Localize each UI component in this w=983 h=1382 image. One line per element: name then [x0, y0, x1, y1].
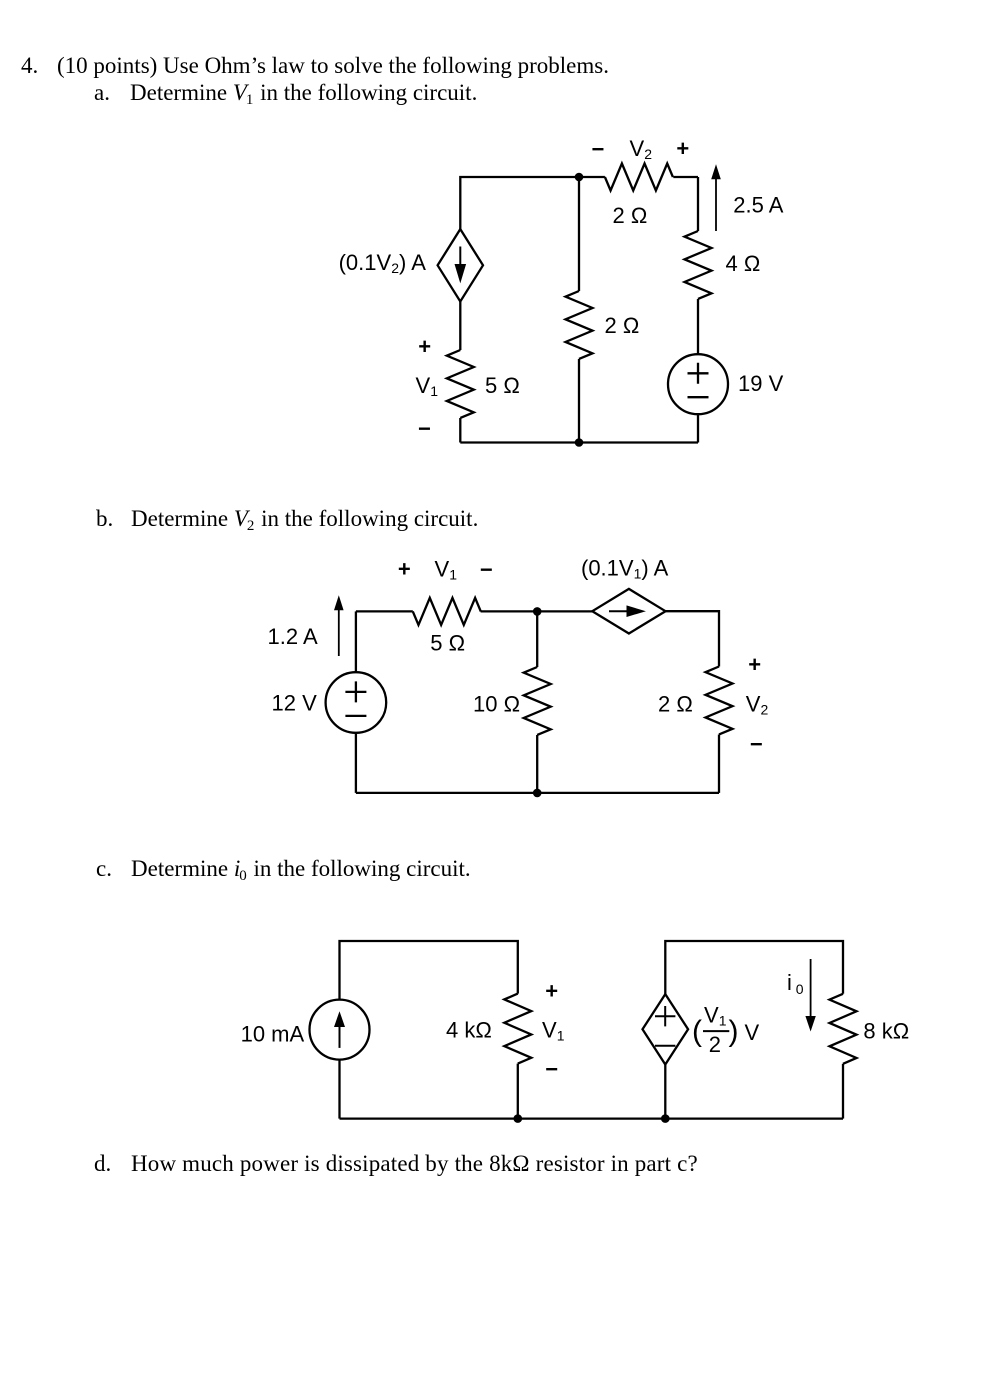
wire 2ohm to bottom [718, 735, 720, 793]
arrowhead 2.5A [711, 164, 721, 179]
svg-text:−: − [750, 732, 763, 757]
resistor 5ohm [447, 350, 474, 418]
svg-text:+: + [748, 652, 761, 677]
arrowhead 1.2A [334, 595, 344, 610]
wire 4kohm to bottom [517, 1064, 519, 1119]
svg-text:2 Ω: 2 Ω [658, 691, 693, 716]
node bottom b [533, 789, 542, 798]
arrow inside diamond [459, 247, 461, 271]
wire 8kohm to bottom [842, 1064, 844, 1119]
node right bottom [661, 1114, 670, 1123]
svg-text:(: ( [692, 1015, 702, 1048]
part d prompt [94, 1151, 111, 1177]
resistor 4ohm [685, 231, 712, 299]
resistor 5ohm horizontal [413, 598, 481, 625]
svg-text:10 mA: 10 mA [241, 1022, 305, 1047]
svg-text:V1: V1 [542, 1018, 565, 1044]
dependent voltage source diamond c [643, 994, 689, 1064]
circuit a schematic [330, 135, 800, 460]
arrow inside diamond b [609, 610, 628, 612]
svg-text:2 Ω: 2 Ω [605, 313, 640, 338]
resistor 10ohm [524, 667, 551, 735]
wire right branch down to resistor 4ohm [697, 177, 699, 231]
node left bottom [514, 1114, 523, 1123]
svg-text:(0.1V1) A: (0.1V1) A [581, 555, 669, 581]
wire top left [356, 610, 413, 612]
resistor 4kohm [504, 994, 531, 1064]
svg-text:−: − [545, 1056, 558, 1081]
arrowhead diamond a [455, 264, 467, 283]
current arrow i0 [810, 959, 812, 1016]
node bottom [575, 438, 584, 447]
voltage source 19V circle [668, 354, 728, 414]
arrowhead diamond b [627, 605, 646, 617]
svg-text:−: − [418, 416, 431, 441]
svg-text:+: + [418, 334, 431, 359]
svg-text:): ) [729, 1015, 739, 1048]
current arrow 1.2A [338, 610, 340, 656]
circuit b schematic [260, 555, 790, 805]
bottom wire [340, 1117, 844, 1119]
svg-text:−: − [480, 557, 493, 582]
svg-text:10 Ω: 10 Ω [473, 691, 520, 716]
voltage source 12V circle [326, 672, 387, 733]
part a prompt [94, 80, 110, 106]
left loop top wire [340, 941, 518, 1000]
resistor R 2ohm top horizontal [579, 164, 698, 191]
svg-text:+: + [545, 979, 558, 1004]
problem 4 heading [21, 53, 38, 79]
part c prompt [96, 856, 112, 882]
wire source to bottom [338, 1060, 340, 1119]
node top [575, 173, 584, 182]
svg-text:2 Ω: 2 Ω [613, 203, 648, 228]
svg-text:V1: V1 [416, 373, 439, 399]
resistor 2ohm middle [566, 291, 593, 359]
left branch wire [355, 611, 357, 672]
wire diamond to resistor 5ohm [459, 302, 461, 351]
node top b [533, 607, 542, 616]
arrowhead i0 [805, 1016, 815, 1032]
svg-text:+: + [676, 136, 689, 161]
wire top from left corner to node [460, 177, 579, 229]
dependent current source diamond [438, 229, 483, 301]
wire diamond c to bottom [664, 1065, 666, 1119]
svg-text:+: + [398, 557, 411, 582]
svg-text:5 Ω: 5 Ω [485, 373, 520, 398]
resistor 8kohm [830, 994, 857, 1064]
wire source to bottom [697, 414, 699, 442]
wire middle branch [578, 177, 580, 443]
svg-text:−: − [592, 137, 605, 162]
plus minus inside diamond c [655, 1006, 675, 1046]
middle branch wire [536, 611, 538, 793]
svg-text:12 V: 12 V [272, 690, 318, 715]
resistor 2ohm b [706, 667, 733, 735]
arrowhead 10mA [334, 1011, 345, 1027]
svg-text:V: V [745, 1020, 760, 1045]
svg-text:V2: V2 [630, 136, 653, 162]
svg-text:19 V: 19 V [738, 371, 784, 396]
svg-text:V1: V1 [435, 557, 458, 583]
svg-text:5 Ω: 5 Ω [430, 630, 465, 655]
wire source to bottom [355, 733, 357, 793]
svg-text:(0.1V2) A: (0.1V2) A [339, 250, 427, 276]
bottom wire [460, 441, 698, 443]
svg-text:i 0: i 0 [787, 970, 804, 997]
wire resistor to diamond [481, 610, 593, 612]
svg-text:8 kΩ: 8 kΩ [863, 1019, 909, 1044]
part b prompt [96, 506, 113, 532]
wire 5ohm to bottom corner [459, 418, 461, 443]
svg-text:4 Ω: 4 Ω [726, 251, 761, 276]
current source 10mA circle [310, 1000, 370, 1060]
svg-text:2: 2 [709, 1032, 721, 1057]
svg-text:V1: V1 [704, 1003, 727, 1029]
circuit c schematic [235, 930, 920, 1130]
arrow inside 10mA [339, 1025, 341, 1048]
svg-text:1.2 A: 1.2 A [268, 624, 318, 649]
svg-text:V2: V2 [746, 691, 769, 717]
wire diamond to right corner [666, 611, 720, 666]
svg-text:2.5 A: 2.5 A [733, 193, 783, 218]
dependent source diamond b [592, 589, 665, 634]
right loop top wire [665, 941, 843, 994]
bottom wire [356, 792, 719, 794]
wire 4ohm to source [697, 299, 699, 354]
current arrow 2.5A [715, 178, 717, 231]
svg-text:4 kΩ: 4 kΩ [446, 1018, 492, 1043]
